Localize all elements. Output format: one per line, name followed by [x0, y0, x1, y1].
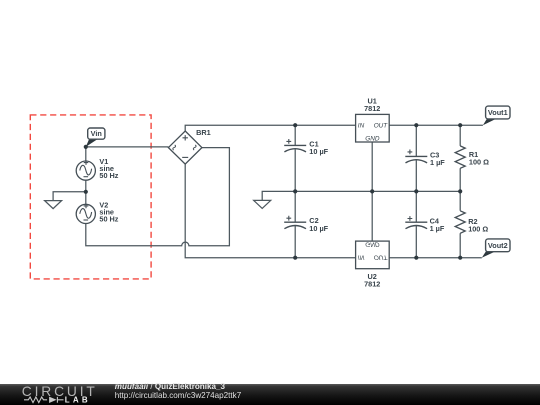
- svg-text:Vout2: Vout2: [488, 241, 508, 250]
- svg-text:IN: IN: [358, 253, 365, 260]
- svg-text:7812: 7812: [364, 279, 380, 288]
- svg-text:IN: IN: [358, 123, 365, 130]
- svg-text:10 µF: 10 µF: [309, 224, 328, 233]
- svg-text:GND: GND: [365, 135, 380, 142]
- svg-text:1 µF: 1 µF: [430, 224, 445, 233]
- svg-text:LAB: LAB: [65, 396, 91, 405]
- svg-text:BR1: BR1: [196, 128, 211, 137]
- svg-text:50 Hz: 50 Hz: [99, 215, 118, 224]
- svg-text:1 µF: 1 µF: [430, 158, 445, 167]
- svg-text:Vin: Vin: [91, 129, 102, 138]
- svg-text:10 µF: 10 µF: [309, 147, 328, 156]
- svg-text:Vout1: Vout1: [488, 108, 508, 117]
- svg-text:OUT: OUT: [374, 123, 389, 130]
- svg-text:muufaaii / QuizElektronika_3: muufaaii / QuizElektronika_3: [115, 382, 226, 391]
- svg-text:GND: GND: [365, 241, 380, 248]
- svg-text:50 Hz: 50 Hz: [99, 171, 118, 180]
- svg-text:100 Ω: 100 Ω: [468, 225, 488, 234]
- svg-text:100 Ω: 100 Ω: [469, 158, 489, 167]
- svg-text:OUT: OUT: [374, 253, 389, 260]
- svg-text:7812: 7812: [364, 104, 380, 113]
- svg-text:http://circuitlab.com/c3w274ap: http://circuitlab.com/c3w274ap2ttk7: [115, 391, 242, 400]
